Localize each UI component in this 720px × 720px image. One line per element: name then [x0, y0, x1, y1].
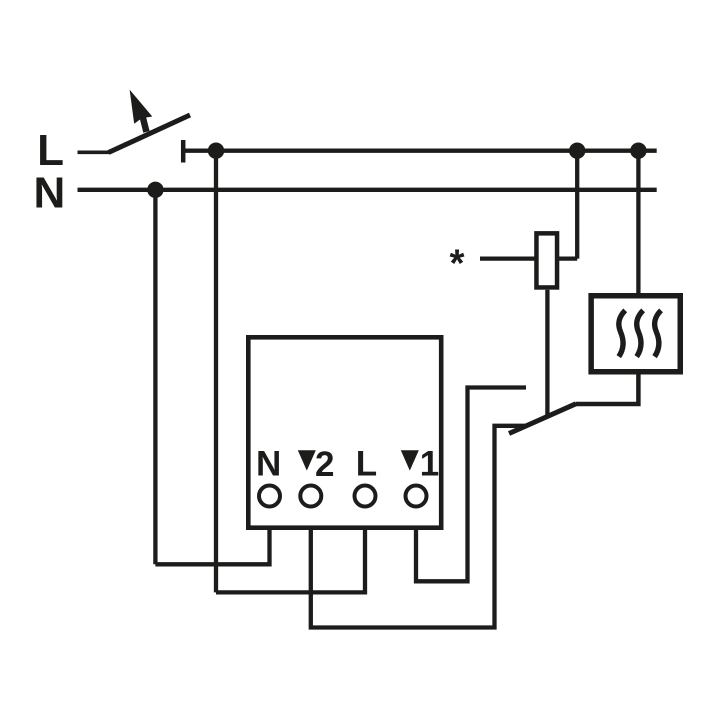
svg-text:N: N	[256, 444, 281, 483]
svg-text:*: *	[450, 243, 465, 286]
wire limiter R1 bottom lead down to relay blade	[545, 290, 549, 416]
heater E1 heat wave 1	[619, 310, 625, 356]
wire L rail	[183, 149, 657, 153]
heater E1 heat wave 2	[637, 310, 643, 356]
terminal label triangle 1	[401, 450, 419, 470]
wire from * to limiter R1 left	[480, 256, 536, 260]
svg-text:N: N	[34, 169, 66, 218]
wire terminal 1 to relay upper contact	[416, 388, 526, 582]
wire terminal 2 to relay lower contact	[311, 426, 527, 628]
resistor R1 (limiter, marked *)	[536, 233, 557, 287]
junction dot on L rail (left)	[208, 143, 224, 159]
wire heater E1 bottom lead to relay pivot	[576, 375, 639, 405]
junction dot on L rail (right)	[630, 143, 646, 159]
heater E1 box	[591, 296, 680, 372]
svg-text:L: L	[356, 444, 377, 483]
wire from L rail dot down to heater E1	[636, 151, 640, 296]
wire from L dot down second column	[214, 151, 218, 593]
junction dot on L rail (middle right)	[569, 143, 585, 159]
svg-text:1: 1	[420, 444, 439, 483]
relay K1 blade	[509, 404, 576, 434]
terminal label triangle 2	[298, 450, 316, 470]
wire terminal N to N column	[155, 530, 269, 564]
heater E1 heat wave 3	[655, 310, 661, 356]
switch S1 actuator arrow	[130, 90, 153, 133]
wire N rail	[78, 188, 657, 192]
terminal 2 circle	[300, 486, 321, 507]
terminal N circle	[259, 486, 280, 507]
switch S1 blade (mains isolator)	[109, 115, 191, 153]
terminal 1 circle	[406, 486, 427, 507]
wire from N dot down left column	[153, 190, 157, 565]
terminal L circle	[355, 486, 376, 507]
terminal box U1	[248, 337, 441, 527]
switch S1 fixed contact tick	[181, 140, 186, 163]
svg-text:2: 2	[315, 445, 334, 484]
wire terminal L to L column	[216, 530, 365, 592]
junction dot on N rail	[147, 182, 163, 198]
wire limiter R1 right lead	[559, 256, 577, 260]
wire from L rail dot down to limiter R1	[575, 151, 579, 259]
wire L stub from label	[78, 151, 111, 155]
